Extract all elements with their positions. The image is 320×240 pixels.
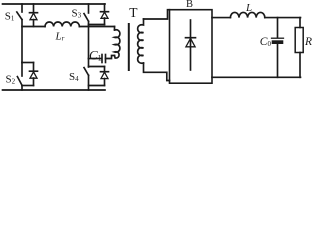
svg-text:B: B — [186, 0, 193, 10]
svg-text:C1: C1 — [89, 48, 102, 63]
svg-text:S4: S4 — [69, 71, 79, 83]
svg-text:T: T — [129, 5, 138, 20]
svg-text:R: R — [304, 36, 312, 48]
svg-text:S3: S3 — [72, 7, 82, 19]
svg-text:Lr: Lr — [55, 31, 65, 43]
svg-text:L: L — [245, 2, 252, 14]
svg-text:S2: S2 — [6, 74, 16, 86]
svg-text:S1: S1 — [5, 11, 15, 23]
svg-text:C0: C0 — [260, 36, 272, 48]
